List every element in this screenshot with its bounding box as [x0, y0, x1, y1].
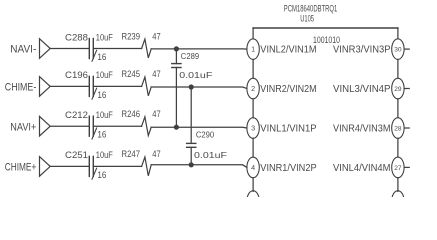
- resistor R247: [142, 157, 152, 176]
- capacitor C196: [89, 76, 93, 96]
- value /16 slash: [92, 88, 97, 99]
- junction on CHIME+ row: [189, 162, 194, 167]
- pin 1: [247, 39, 259, 60]
- pin 30 stub: [404, 48, 409, 50]
- value /16 slash: [92, 128, 97, 139]
- svg-text:R246: R246: [122, 109, 141, 119]
- pin name VINR3/VIN3P: [333, 45, 391, 56]
- svg-text:16: 16: [97, 170, 106, 180]
- svg-text:CHIME-: CHIME-: [5, 82, 37, 94]
- svg-text:16: 16: [97, 90, 106, 100]
- svg-text:1001010: 1001010: [313, 35, 340, 45]
- svg-text:4: 4: [251, 163, 255, 172]
- pin name VINL2/VIN1M: [260, 45, 316, 56]
- net label NAVI-: [10, 44, 36, 56]
- svg-text:10uF: 10uF: [96, 150, 113, 160]
- input port symbol CHIME+: [40, 157, 51, 177]
- IC top edge: [253, 27, 398, 29]
- pin 3: [247, 118, 259, 139]
- pin name VINR2/VIN2M: [260, 84, 316, 95]
- IC right edge segments: [397, 28, 399, 39]
- junction on NAVI+ row: [174, 125, 179, 130]
- svg-text:27: 27: [394, 165, 402, 172]
- input port symbol NAVI-: [40, 39, 51, 59]
- wire C288 to R239: [93, 48, 141, 50]
- pin 27 stub: [404, 166, 409, 168]
- wire NAVI+ to C212: [50, 125, 89, 127]
- pin 26 (partial): [392, 191, 404, 212]
- svg-text:29: 29: [394, 86, 402, 93]
- svg-text:10uF: 10uF: [96, 110, 113, 120]
- wire C212 to R246: [93, 125, 141, 127]
- svg-text:3: 3: [251, 124, 255, 133]
- svg-text:16: 16: [97, 130, 106, 140]
- resistor R246: [142, 117, 152, 136]
- wire R247 to pin 4: [151, 165, 247, 168]
- capacitor C288: [89, 39, 93, 59]
- wire C251 to R247: [93, 165, 141, 167]
- pin name VINL3/VIN4P: [333, 84, 391, 95]
- pin 27: [392, 157, 404, 178]
- wire R246 to pin 3: [151, 126, 247, 129]
- pin 4: [247, 157, 259, 178]
- svg-text:28: 28: [394, 125, 402, 132]
- resistor R245: [142, 77, 152, 96]
- svg-text:C196: C196: [65, 70, 88, 80]
- svg-text:2: 2: [251, 84, 255, 93]
- wire junction to C290: [190, 87, 192, 143]
- svg-text:U105: U105: [300, 13, 314, 23]
- pin 28: [392, 118, 404, 139]
- wire NAVI- to C288: [50, 48, 89, 50]
- capacitor C290: [187, 143, 196, 147]
- input port symbol NAVI+: [40, 116, 51, 136]
- pin name VINL4/VIN4M: [333, 163, 391, 174]
- svg-text:0.01uF: 0.01uF: [194, 150, 227, 160]
- capacitor C212: [89, 116, 93, 136]
- pin name VINR1/VIN2P: [260, 163, 316, 174]
- svg-text:C288: C288: [65, 32, 88, 42]
- svg-text:C289: C289: [181, 51, 200, 61]
- resistor R239: [142, 39, 152, 58]
- pin 2: [247, 78, 259, 99]
- pin 29 stub: [404, 88, 409, 90]
- wire C290 to CHIME+ row: [190, 147, 192, 165]
- wire CHIME- to C196: [50, 85, 89, 87]
- wire C289 to NAVI+ row: [175, 68, 177, 128]
- pin name VINL1/VIN1P: [260, 123, 316, 134]
- svg-text:R245: R245: [122, 69, 141, 79]
- svg-text:PCM18640DBTRQ1: PCM18640DBTRQ1: [284, 3, 338, 13]
- pin 5 (partial): [247, 191, 259, 212]
- net label NAVI+: [10, 121, 36, 133]
- svg-text:C212: C212: [65, 110, 88, 120]
- svg-text:47: 47: [152, 31, 160, 41]
- svg-text:30: 30: [394, 47, 402, 54]
- pin name VINR4/VIN3M: [333, 123, 391, 134]
- svg-text:VINL4/VIN4M: VINL4/VIN4M: [333, 163, 391, 174]
- wire CHIME+ to C251: [50, 165, 89, 167]
- svg-text:47: 47: [152, 69, 160, 79]
- net label CHIME-: [5, 82, 37, 94]
- wire R239 to pin 1: [151, 48, 247, 50]
- pin 28 stub: [404, 127, 409, 129]
- svg-text:VINL3/VIN4P: VINL3/VIN4P: [333, 84, 391, 95]
- wire C196 to R245: [93, 85, 141, 87]
- svg-text:0.01uF: 0.01uF: [179, 70, 212, 80]
- svg-text:47: 47: [152, 149, 160, 159]
- net label CHIME+: [5, 162, 37, 174]
- IC left edge segments: [252, 28, 254, 39]
- input port symbol CHIME-: [40, 77, 51, 97]
- value /16 slash: [92, 50, 97, 61]
- svg-text:C251: C251: [65, 150, 88, 160]
- pin 30: [392, 39, 404, 60]
- svg-text:R239: R239: [122, 31, 141, 41]
- capacitor C289: [172, 64, 181, 68]
- svg-text:16: 16: [97, 52, 106, 62]
- svg-text:47: 47: [152, 109, 160, 119]
- svg-text:C290: C290: [196, 130, 215, 140]
- svg-text:NAVI-: NAVI-: [10, 44, 36, 56]
- svg-text:VINR4/VIN3M: VINR4/VIN3M: [333, 123, 391, 134]
- svg-text:10uF: 10uF: [96, 32, 113, 42]
- svg-text:VINR1/VIN2P: VINR1/VIN2P: [260, 163, 316, 174]
- svg-text:VINL1/VIN1P: VINL1/VIN1P: [260, 123, 316, 134]
- pin 29: [392, 78, 404, 99]
- junction on CHIME- row: [189, 84, 194, 89]
- svg-text:R247: R247: [122, 149, 141, 159]
- value /16 slash: [92, 168, 97, 179]
- capacitor C251: [89, 156, 93, 176]
- svg-text:NAVI+: NAVI+: [10, 121, 36, 133]
- svg-text:1: 1: [251, 45, 255, 54]
- wire junction to C289: [175, 49, 177, 64]
- svg-text:VINR2/VIN2M: VINR2/VIN2M: [260, 84, 316, 95]
- wire R245 to pin 2: [151, 87, 247, 89]
- svg-text:VINR3/VIN3P: VINR3/VIN3P: [333, 45, 391, 56]
- svg-text:CHIME+: CHIME+: [5, 162, 37, 174]
- svg-text:10uF: 10uF: [96, 70, 113, 80]
- svg-text:VINL2/VIN1M: VINL2/VIN1M: [260, 45, 316, 56]
- junction on NAVI- row: [174, 46, 179, 51]
